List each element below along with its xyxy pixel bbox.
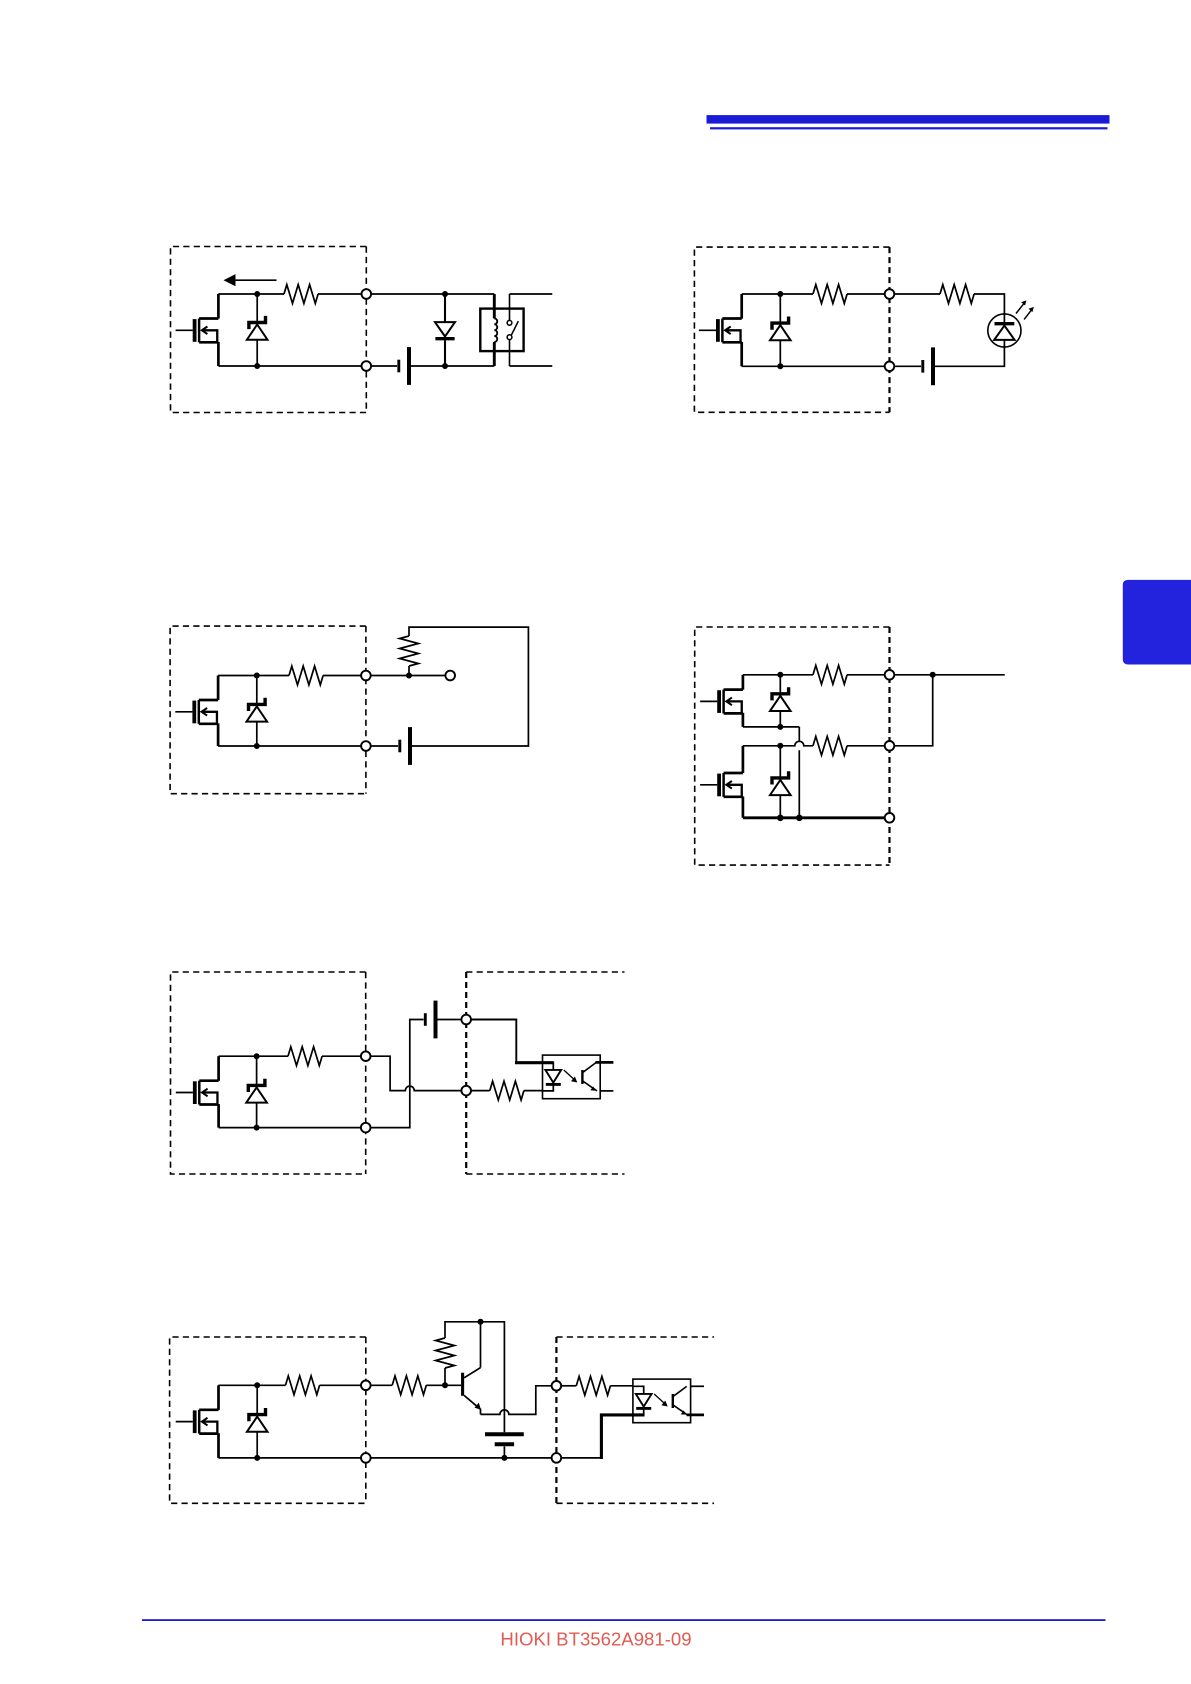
svg-text:HIOKI BT3562A981-09: HIOKI BT3562A981-09: [500, 1628, 691, 1649]
